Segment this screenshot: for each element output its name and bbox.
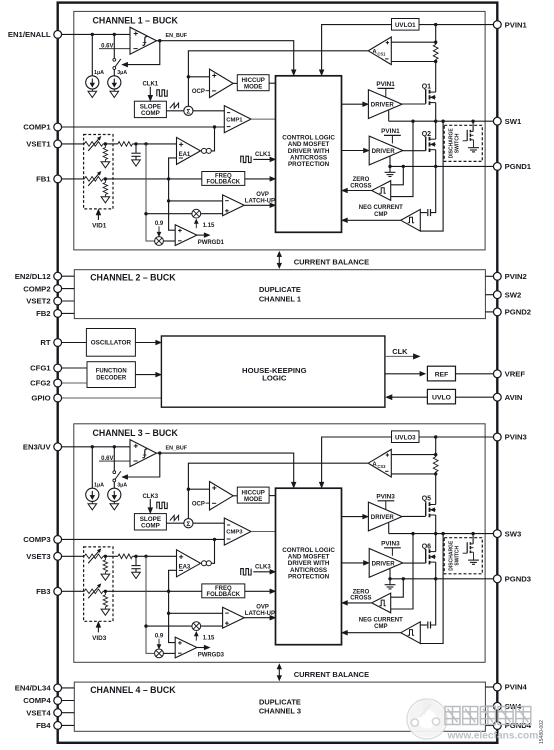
svg-text:CURRENT BALANCE: CURRENT BALANCE bbox=[294, 257, 369, 266]
svg-text:CHANNEL 1 – BUCK: CHANNEL 1 – BUCK bbox=[93, 16, 179, 26]
svg-text:www.elecfans.com: www.elecfans.com bbox=[447, 731, 539, 742]
svg-text:CMP3: CMP3 bbox=[226, 530, 243, 536]
svg-text:CHANNEL 2 – BUCK: CHANNEL 2 – BUCK bbox=[90, 273, 176, 283]
svg-text:VSET2: VSET2 bbox=[26, 297, 50, 306]
svg-text:OCP: OCP bbox=[192, 89, 205, 95]
svg-text:AVIN: AVIN bbox=[505, 393, 523, 402]
svg-text:Σ: Σ bbox=[186, 521, 190, 528]
svg-text:PGND2: PGND2 bbox=[505, 308, 531, 317]
svg-text:DECODER: DECODER bbox=[96, 375, 127, 381]
svg-text:FB4: FB4 bbox=[36, 721, 51, 730]
svg-text:VID3: VID3 bbox=[92, 635, 107, 642]
svg-text:CS1: CS1 bbox=[377, 52, 386, 57]
svg-text:PGND3: PGND3 bbox=[505, 575, 531, 584]
svg-text:FB2: FB2 bbox=[36, 309, 51, 318]
svg-text:SW3: SW3 bbox=[505, 529, 522, 538]
svg-text:Σ: Σ bbox=[186, 108, 190, 115]
svg-text:CS3: CS3 bbox=[377, 464, 386, 469]
svg-text:PVIN3: PVIN3 bbox=[381, 540, 400, 547]
svg-text:CHANNEL 3: CHANNEL 3 bbox=[259, 707, 301, 716]
svg-text:0.9: 0.9 bbox=[155, 221, 164, 227]
svg-text:PVIN1: PVIN1 bbox=[381, 128, 400, 135]
svg-text:PROTECTION: PROTECTION bbox=[288, 573, 330, 580]
svg-text:Q2: Q2 bbox=[422, 131, 431, 138]
svg-text:COMP1: COMP1 bbox=[23, 123, 51, 132]
svg-text:PVIN1: PVIN1 bbox=[376, 81, 395, 88]
svg-text:1µA: 1µA bbox=[94, 483, 104, 489]
svg-text:PWRGD3: PWRGD3 bbox=[198, 652, 225, 658]
svg-text:VID1: VID1 bbox=[92, 222, 107, 229]
svg-text:15480-002: 15480-002 bbox=[539, 720, 545, 744]
svg-text:Q5: Q5 bbox=[422, 496, 431, 503]
svg-text:NEG CURRENT: NEG CURRENT bbox=[359, 205, 403, 211]
svg-text:EA3: EA3 bbox=[179, 565, 191, 571]
svg-text:CFG2: CFG2 bbox=[30, 379, 51, 388]
svg-text:VSET4: VSET4 bbox=[26, 708, 51, 717]
svg-text:DUPLICATE: DUPLICATE bbox=[259, 698, 301, 707]
svg-text:0.9: 0.9 bbox=[155, 634, 164, 640]
svg-text:FOLDBACK: FOLDBACK bbox=[206, 592, 240, 598]
svg-text:RT: RT bbox=[40, 338, 51, 347]
svg-text:EN1/ENALL: EN1/ENALL bbox=[8, 30, 51, 39]
svg-text:FOLDBACK: FOLDBACK bbox=[206, 180, 240, 186]
svg-text:VSET1: VSET1 bbox=[26, 140, 51, 149]
svg-text:EN_BUF: EN_BUF bbox=[166, 33, 188, 39]
svg-text:GPIO: GPIO bbox=[31, 394, 50, 403]
svg-text:VSET3: VSET3 bbox=[26, 552, 50, 561]
svg-text:SWITCH: SWITCH bbox=[454, 545, 460, 565]
svg-text:PWRGD1: PWRGD1 bbox=[198, 240, 225, 246]
svg-text:CHANNEL 4 – BUCK: CHANNEL 4 – BUCK bbox=[90, 685, 176, 695]
svg-text:CLK1: CLK1 bbox=[255, 152, 271, 158]
svg-text:VREF: VREF bbox=[505, 370, 526, 379]
svg-text:PVIN2: PVIN2 bbox=[505, 272, 527, 281]
svg-text:CMP: CMP bbox=[374, 624, 387, 630]
svg-text:LOGIC: LOGIC bbox=[262, 374, 287, 383]
svg-text:FUNCTION: FUNCTION bbox=[96, 369, 127, 375]
svg-text:REF: REF bbox=[435, 371, 449, 378]
svg-text:CMP: CMP bbox=[374, 212, 387, 218]
svg-text:DRIVER: DRIVER bbox=[372, 148, 396, 155]
svg-text:SWITCH: SWITCH bbox=[454, 133, 460, 153]
svg-text:EA1: EA1 bbox=[179, 152, 191, 158]
svg-text:1µA: 1µA bbox=[94, 70, 104, 76]
svg-text:OVP: OVP bbox=[256, 192, 269, 198]
svg-text:CLK3: CLK3 bbox=[142, 494, 158, 500]
svg-text:UVLO1: UVLO1 bbox=[395, 22, 416, 29]
svg-text:PROTECTION: PROTECTION bbox=[288, 161, 330, 168]
svg-text:ZERO: ZERO bbox=[353, 589, 370, 595]
svg-text:1.15: 1.15 bbox=[203, 223, 215, 229]
svg-text:EN_BUF: EN_BUF bbox=[166, 445, 188, 451]
svg-text:FB3: FB3 bbox=[36, 587, 51, 596]
svg-text:3µA: 3µA bbox=[117, 483, 127, 489]
svg-text:DRIVER: DRIVER bbox=[372, 560, 396, 567]
svg-text:COMP4: COMP4 bbox=[23, 696, 51, 705]
svg-text:LATCH-UP: LATCH-UP bbox=[245, 199, 275, 205]
svg-text:PVIN1: PVIN1 bbox=[505, 20, 528, 29]
svg-text:EN3/UV: EN3/UV bbox=[23, 443, 52, 452]
svg-text:DUPLICATE: DUPLICATE bbox=[259, 285, 301, 294]
svg-text:EN2/DL12: EN2/DL12 bbox=[15, 272, 51, 281]
svg-text:SW2: SW2 bbox=[505, 290, 522, 299]
svg-text:COMP3: COMP3 bbox=[23, 535, 50, 544]
svg-text:COMP2: COMP2 bbox=[23, 284, 50, 293]
svg-text:UVLO3: UVLO3 bbox=[395, 434, 416, 441]
svg-text:COMP: COMP bbox=[141, 110, 160, 117]
svg-text:CLK3: CLK3 bbox=[255, 565, 271, 571]
svg-text:Q6: Q6 bbox=[422, 543, 431, 550]
svg-text:CROSS: CROSS bbox=[350, 596, 371, 602]
svg-text:SW1: SW1 bbox=[505, 117, 522, 126]
svg-text:CURRENT BALANCE: CURRENT BALANCE bbox=[294, 670, 369, 679]
svg-text:MODE: MODE bbox=[244, 496, 262, 503]
svg-text:ZERO: ZERO bbox=[353, 177, 370, 183]
svg-text:OVP: OVP bbox=[256, 605, 269, 611]
svg-text:CROSS: CROSS bbox=[350, 183, 371, 189]
svg-text:CMP1: CMP1 bbox=[226, 117, 243, 123]
svg-text:CFG1: CFG1 bbox=[30, 364, 51, 373]
svg-text:UVLO: UVLO bbox=[432, 395, 451, 402]
svg-text:PVIN4: PVIN4 bbox=[505, 683, 528, 692]
svg-text:OSCILLATOR: OSCILLATOR bbox=[91, 340, 132, 347]
svg-text:PVIN3: PVIN3 bbox=[376, 493, 395, 500]
svg-text:PGND1: PGND1 bbox=[505, 162, 532, 171]
svg-text:FB1: FB1 bbox=[36, 175, 51, 184]
svg-text:CHANNEL 3 – BUCK: CHANNEL 3 – BUCK bbox=[93, 428, 179, 438]
svg-text:COMP: COMP bbox=[141, 522, 160, 529]
svg-text:1.15: 1.15 bbox=[203, 636, 215, 642]
svg-text:PVIN3: PVIN3 bbox=[505, 433, 527, 442]
svg-text:CLK1: CLK1 bbox=[142, 82, 158, 88]
svg-text:3µA: 3µA bbox=[117, 70, 127, 76]
svg-text:Q1: Q1 bbox=[422, 83, 431, 90]
svg-text:DRIVER: DRIVER bbox=[371, 514, 395, 521]
svg-text:CHANNEL 1: CHANNEL 1 bbox=[259, 294, 301, 303]
svg-text:LATCH-UP: LATCH-UP bbox=[245, 611, 275, 617]
svg-text:EN4/DL34: EN4/DL34 bbox=[15, 684, 52, 693]
svg-text:DRIVER: DRIVER bbox=[371, 102, 395, 109]
svg-text:CLK: CLK bbox=[392, 347, 408, 356]
svg-text:NEG CURRENT: NEG CURRENT bbox=[359, 618, 403, 624]
svg-text:MODE: MODE bbox=[244, 83, 262, 90]
svg-text:OCP: OCP bbox=[192, 502, 205, 508]
